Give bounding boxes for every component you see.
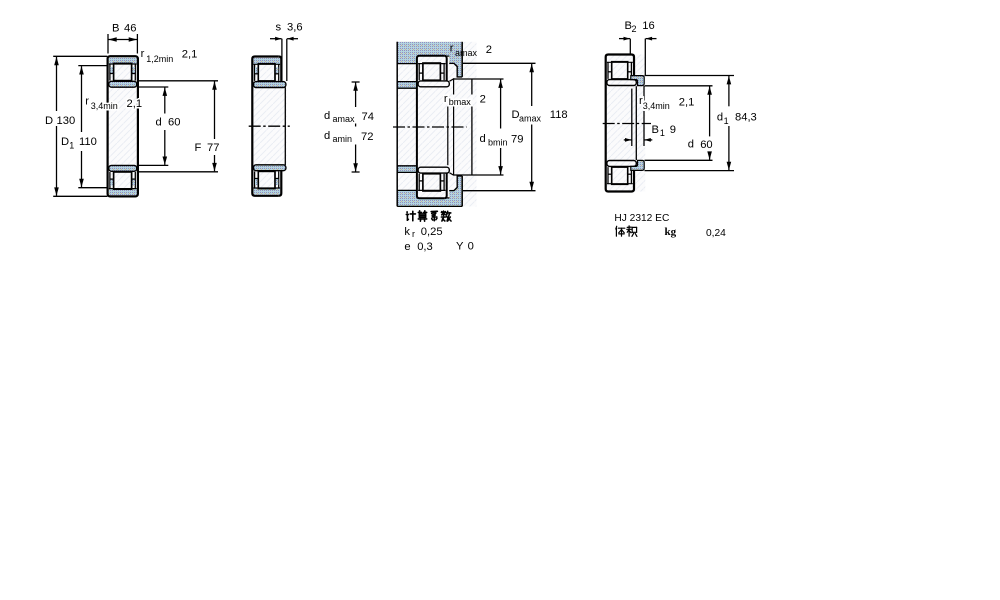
svg-text:F: F xyxy=(195,142,202,154)
svg-text:77: 77 xyxy=(207,142,219,154)
svg-text:d: d xyxy=(324,130,330,142)
svg-text:2,1: 2,1 xyxy=(127,98,143,110)
svg-text:1,2min: 1,2min xyxy=(146,54,173,64)
svg-text:1: 1 xyxy=(69,141,74,151)
svg-text:bmin: bmin xyxy=(488,138,508,148)
svg-text:110: 110 xyxy=(79,136,97,148)
svg-text:r: r xyxy=(444,93,448,105)
svg-text:r: r xyxy=(85,96,89,108)
svg-text:B: B xyxy=(112,23,119,35)
svg-text:1: 1 xyxy=(724,116,729,126)
svg-text:46: 46 xyxy=(124,23,136,35)
svg-text:r: r xyxy=(450,43,454,55)
svg-text:e: e xyxy=(404,241,410,253)
svg-text:amax: amax xyxy=(519,113,542,123)
svg-text:130: 130 xyxy=(57,115,76,127)
svg-text:0,3: 0,3 xyxy=(417,241,433,253)
svg-text:0,24: 0,24 xyxy=(706,228,726,239)
svg-text:2,1: 2,1 xyxy=(182,49,198,61)
svg-text:118: 118 xyxy=(550,109,568,121)
svg-text:0,25: 0,25 xyxy=(421,226,443,238)
svg-text:r: r xyxy=(412,229,415,239)
svg-text:bmax: bmax xyxy=(449,97,472,107)
svg-text:3,4min: 3,4min xyxy=(643,101,670,111)
svg-text:HJ 2312 EC: HJ 2312 EC xyxy=(614,213,669,224)
svg-text:kg: kg xyxy=(665,226,677,238)
svg-text:amin: amin xyxy=(333,134,353,144)
svg-text:2: 2 xyxy=(486,44,492,56)
svg-text:3,6: 3,6 xyxy=(287,22,303,34)
svg-text:74: 74 xyxy=(362,111,374,123)
svg-text:60: 60 xyxy=(168,117,180,129)
svg-text:Y: Y xyxy=(456,241,464,253)
svg-text:2: 2 xyxy=(632,24,637,34)
svg-text:60: 60 xyxy=(700,139,712,151)
svg-text:1: 1 xyxy=(660,128,665,138)
svg-text:84,3: 84,3 xyxy=(735,111,757,123)
svg-text:d: d xyxy=(156,117,162,129)
svg-text:amax: amax xyxy=(455,48,478,58)
svg-text:B: B xyxy=(652,124,659,136)
svg-text:0: 0 xyxy=(468,241,474,253)
svg-text:72: 72 xyxy=(361,131,373,143)
svg-text:d: d xyxy=(688,139,694,151)
svg-text:k: k xyxy=(404,226,410,238)
svg-text:d: d xyxy=(717,111,723,123)
svg-text:r: r xyxy=(141,48,145,60)
svg-text:2,1: 2,1 xyxy=(679,97,695,109)
svg-text:16: 16 xyxy=(642,20,654,32)
svg-text:2: 2 xyxy=(480,94,486,106)
svg-text:3,4min: 3,4min xyxy=(91,101,118,111)
svg-text:D: D xyxy=(45,115,53,127)
svg-text:d: d xyxy=(324,110,330,122)
svg-text:9: 9 xyxy=(670,124,676,136)
svg-text:D: D xyxy=(61,136,69,148)
svg-text:79: 79 xyxy=(511,133,523,145)
svg-text:s: s xyxy=(276,22,282,34)
svg-text:d: d xyxy=(480,133,486,145)
svg-text:amax: amax xyxy=(333,114,356,124)
